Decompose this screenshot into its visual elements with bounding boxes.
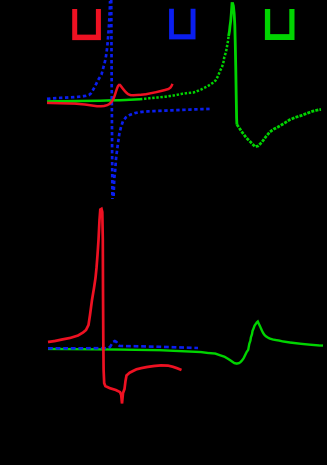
top panel: green dotted rising curve to peak [140, 36, 229, 99]
bottom panel: green baseline and resonance feature [48, 322, 323, 364]
bottom panel: red curve [48, 209, 182, 404]
top panel: blue vertical pole line [111, 0, 112, 199]
top panel: green solid peak bar [229, 4, 237, 125]
bottom panel: blue dashed baseline with bump [48, 341, 198, 348]
top panel: red curve [47, 84, 172, 107]
legend symbol blue square-cup U [169, 9, 195, 40]
legend symbol red square-cup U [72, 9, 101, 40]
top panel: green dotted right-side descent and tail [237, 110, 321, 147]
top panel: blue dashed curve left branch [47, 1, 110, 99]
top panel: blue dashed curve right branch [114, 109, 211, 196]
top panel: green flat solid segment [47, 99, 140, 101]
legend symbol green square-cup U [265, 9, 295, 40]
